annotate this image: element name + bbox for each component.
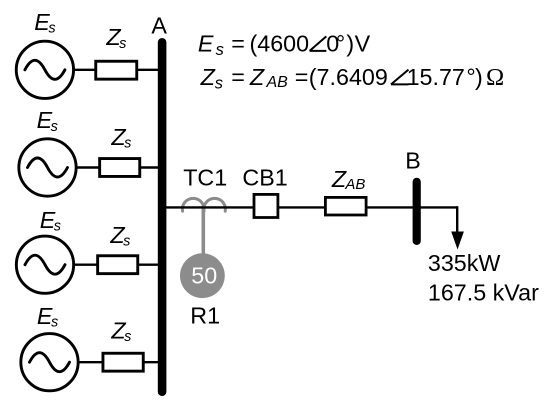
formula line 2: Zs = ZAB = (7.6409 angle 15.77 deg)Ohm [200, 64, 505, 92]
impedance Z_AB [325, 197, 366, 215]
label Z_s #4 [110, 317, 131, 345]
load arrow [451, 206, 464, 249]
formula line 1: Es = (4600 angle 0 deg)V [198, 31, 371, 60]
label load power [428, 250, 539, 306]
svg-text:AB: AB [266, 74, 289, 91]
svg-text:167.5 kVar: 167.5 kVar [428, 280, 539, 306]
svg-text:=: = [231, 31, 245, 57]
svg-text:50: 50 [191, 262, 217, 288]
wire source3 to Zs3 [74, 264, 98, 266]
bus A [158, 42, 167, 391]
wire feeder bus A to load corner [162, 206, 457, 208]
label E_s #3 [40, 207, 61, 235]
label E_s #2 [37, 107, 58, 135]
svg-text:=: = [231, 64, 245, 90]
svg-text:s: s [215, 74, 223, 92]
svg-text:s: s [216, 41, 224, 59]
wire Zs3 to bus A [137, 264, 163, 266]
wire relay connection (gray) [202, 205, 206, 255]
svg-text:TC1: TC1 [183, 165, 227, 191]
resistor Z_s #2 [100, 159, 140, 177]
svg-text:Z: Z [249, 64, 265, 90]
source E_s #4 [21, 334, 78, 391]
svg-text:CB1: CB1 [242, 165, 287, 191]
label TC1 [183, 165, 227, 191]
bus B [413, 182, 421, 241]
wire Zs4 to bus A [142, 361, 163, 363]
svg-text:335kW: 335kW [428, 250, 501, 276]
source E_s #1 [16, 41, 73, 98]
svg-text:°: ° [336, 31, 345, 57]
svg-text:B: B [405, 148, 421, 174]
wire Zs1 to bus A [137, 69, 162, 71]
resistor Z_s #3 [98, 256, 138, 274]
node B label [405, 148, 421, 174]
wire source4 to Zs4 [78, 361, 103, 363]
svg-text:): ) [475, 64, 483, 90]
wire Zs2 to bus A [140, 166, 162, 168]
svg-text:(4600: (4600 [250, 31, 310, 57]
wire source1 to Zs1 [74, 69, 97, 71]
label Z_AB [331, 166, 365, 193]
svg-text:15.77: 15.77 [407, 64, 465, 90]
svg-text:Z: Z [200, 64, 216, 90]
label E_s #4 [37, 303, 58, 331]
svg-text:=: = [295, 64, 309, 90]
label E_s #1 [34, 9, 55, 37]
svg-text:A: A [151, 12, 167, 38]
label R1 [190, 303, 220, 329]
circuit breaker CB1 [254, 194, 278, 217]
source E_s #3 [16, 236, 73, 293]
source E_s #2 [19, 139, 76, 196]
svg-text:(7.6409: (7.6409 [309, 64, 388, 90]
node A label [151, 12, 167, 38]
svg-text:Ω: Ω [486, 64, 504, 91]
wire source2 to Zs2 [76, 166, 100, 168]
resistor Z_s #4 [103, 353, 143, 371]
relay R1 (50 overcurrent) [180, 253, 225, 298]
svg-text:V: V [355, 31, 371, 57]
label CB1 [242, 165, 287, 191]
resistor Z_s #1 [96, 61, 137, 79]
svg-text:): ) [346, 31, 354, 57]
svg-text:E: E [198, 31, 214, 57]
CT TC1 (gray arcs) [182, 198, 225, 211]
label Z_s #2 [110, 124, 131, 152]
label Z_s #1 [105, 24, 126, 52]
label Z_s #3 [109, 222, 130, 250]
svg-text:R1: R1 [190, 303, 220, 329]
